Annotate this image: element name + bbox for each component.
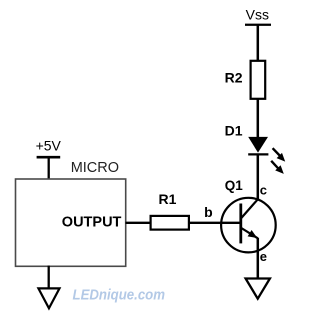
svg-text:Q1: Q1 xyxy=(225,178,244,193)
resistor R2 xyxy=(251,61,266,99)
transistor Q1 base bar xyxy=(239,204,242,244)
svg-text:+5V: +5V xyxy=(36,138,62,154)
transistor Q1 collector diagonal xyxy=(241,199,257,218)
wire Q1 emitter to ground xyxy=(257,238,260,279)
wire R1 to Q1 base xyxy=(190,222,241,224)
wire +5V to MICRO xyxy=(48,157,50,179)
ground symbol right xyxy=(246,279,270,299)
wire OUTPUT to R1 xyxy=(126,222,151,224)
transistor Q1 emitter arrowhead xyxy=(248,230,258,238)
svg-text:OUTPUT: OUTPUT xyxy=(62,214,122,230)
svg-text:c: c xyxy=(260,182,267,197)
svg-text:Vss: Vss xyxy=(246,6,269,22)
svg-text:e: e xyxy=(260,249,267,264)
wire Vss to R2 xyxy=(257,25,260,61)
svg-text:D1: D1 xyxy=(225,123,243,139)
LED D1 cathode bar xyxy=(248,153,268,155)
resistor R1 xyxy=(151,216,189,230)
svg-text:LEDnique.com: LEDnique.com xyxy=(73,287,166,304)
transistor Q1 emitter diagonal xyxy=(241,228,257,238)
ground symbol left xyxy=(38,288,59,308)
power rail bar +5V xyxy=(37,156,61,159)
wire collector vertical inside circle xyxy=(257,196,259,200)
LED D1 emission arrow 2 xyxy=(271,161,284,174)
svg-text:R2: R2 xyxy=(225,70,243,86)
svg-text:b: b xyxy=(204,204,213,220)
MICRO block xyxy=(16,179,126,266)
power rail bar Vss xyxy=(245,24,271,26)
transistor Q1 body circle xyxy=(221,198,276,253)
svg-text:R1: R1 xyxy=(159,191,177,207)
LED D1 emission arrow 1 xyxy=(273,148,286,161)
wire R2 to D1 xyxy=(257,99,260,137)
wire D1 to Q1 collector xyxy=(257,155,260,199)
LED D1 anode triangle xyxy=(248,137,268,153)
svg-text:MICRO: MICRO xyxy=(71,160,119,176)
wire MICRO to ground xyxy=(48,266,50,290)
